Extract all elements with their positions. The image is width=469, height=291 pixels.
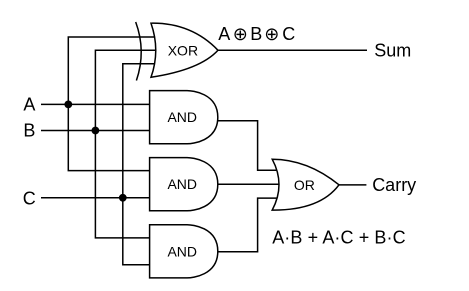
svg-text:A⊕B⊕C: A⊕B⊕C [218,24,295,44]
node A junction [64,101,72,109]
wire AND3 output to OR input 3 [217,198,278,252]
svg-text:A·B + A·C + B·C: A·B + A·C + B·C [272,227,406,247]
svg-text:B: B [23,120,35,140]
wire B branch: XOR input 2, vertical bus, AND3 input 1 [95,50,158,238]
wire Sum output [217,49,367,51]
wire input C [41,197,150,199]
node C junction [119,194,127,202]
svg-text:OR: OR [294,177,315,193]
svg-text:C: C [23,188,36,208]
and-gate U4 body [150,225,218,278]
wire input B [41,130,150,132]
and-gate U3 body [150,158,218,211]
xor-gate U1 body [151,23,218,77]
wire AND1 output to OR input 1 [217,121,278,171]
svg-text:A: A [23,94,35,114]
node B junction [92,127,100,135]
svg-text:AND: AND [167,176,197,192]
wire C branch: XOR input 3, vertical bus, AND3 input 2 [123,64,158,265]
xor-gate U1 input arc [136,22,142,81]
svg-text:XOR: XOR [168,42,198,58]
svg-text:Carry: Carry [372,175,416,195]
svg-text:AND: AND [167,109,197,125]
svg-text:AND: AND [167,243,197,259]
wire A branch: XOR input 1, vertical bus, AND2 input 1 [68,37,158,171]
svg-text:Sum: Sum [374,40,411,60]
or-gate U5 body [272,159,339,210]
and-gate U2 body [150,91,218,144]
wire input A [41,103,150,105]
wire Carry output [338,184,366,186]
wire AND2 output to OR input 2 [217,183,282,185]
